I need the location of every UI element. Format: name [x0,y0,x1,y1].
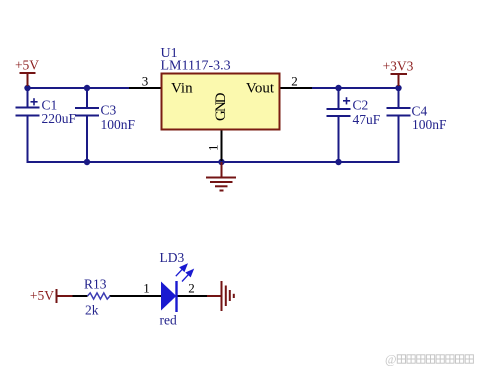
svg-text:100nF: 100nF [101,117,136,132]
svg-text:C2: C2 [353,97,369,112]
svg-text:2k: 2k [85,303,99,318]
svg-text:2: 2 [188,281,195,296]
svg-text:Vin: Vin [171,81,193,97]
svg-text:Vout: Vout [246,81,275,97]
svg-text:red: red [160,313,177,328]
svg-text:3: 3 [142,74,149,89]
svg-text:2: 2 [291,74,298,89]
svg-text:+3V3: +3V3 [383,59,414,74]
svg-text:LM1117-3.3: LM1117-3.3 [161,58,231,73]
svg-text:1: 1 [206,145,221,152]
svg-text:1: 1 [143,281,150,296]
svg-text:LD3: LD3 [160,250,185,265]
svg-text:@: @ [385,353,397,367]
svg-text:C3: C3 [101,102,117,117]
svg-text:R13: R13 [84,277,107,292]
svg-text:+5V: +5V [30,288,54,303]
svg-text:100nF: 100nF [412,117,447,132]
svg-text:+5V: +5V [15,58,39,73]
svg-text:220uF: 220uF [42,111,77,126]
svg-text:GND: GND [213,92,229,121]
svg-text:47uF: 47uF [353,112,381,127]
